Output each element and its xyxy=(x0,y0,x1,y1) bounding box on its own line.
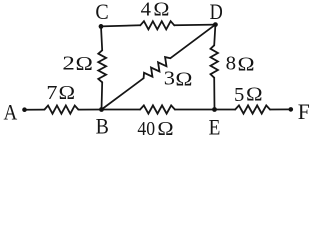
terminal dot F xyxy=(289,107,294,112)
svg-text:4: 4 xyxy=(141,0,152,21)
resistor 3 ohm (between B and D, diagonal) xyxy=(144,57,171,78)
svg-text:Ω: Ω xyxy=(175,70,192,91)
svg-text:F: F xyxy=(298,99,310,124)
wire 8-ohm resistor to node E xyxy=(213,78,215,110)
wire A to 7-ohm resistor xyxy=(25,109,45,111)
wire node B to 40-ohm resistor xyxy=(102,109,141,111)
resistor 8 ohm (between D and E) xyxy=(211,45,218,77)
svg-text:7: 7 xyxy=(46,83,57,104)
svg-text:40: 40 xyxy=(137,119,155,140)
wire 5-ohm resistor to F xyxy=(270,108,291,110)
junction dot E xyxy=(212,107,217,112)
junction dot C xyxy=(99,24,104,29)
svg-text:Ω: Ω xyxy=(59,83,76,104)
wire node C to 4-ohm resistor xyxy=(101,25,140,26)
wire 7-ohm resistor to node B xyxy=(78,109,101,111)
wire node D down to 8-ohm resistor xyxy=(214,25,215,46)
svg-text:Ω: Ω xyxy=(157,119,173,140)
resistor 5 ohm (between E and F) xyxy=(235,105,270,113)
wire 3-ohm resistor to node D (diagonal) xyxy=(170,25,215,59)
svg-text:Ω: Ω xyxy=(76,54,93,75)
resistor 4 ohm (between C and D) xyxy=(140,21,174,29)
wire node E to 5-ohm resistor xyxy=(215,109,236,111)
svg-text:C: C xyxy=(95,0,108,24)
svg-text:5: 5 xyxy=(234,85,244,106)
svg-text:3: 3 xyxy=(164,68,175,89)
wire node B up to 2-ohm resistor xyxy=(101,82,104,109)
svg-text:8: 8 xyxy=(226,53,236,74)
svg-text:Ω: Ω xyxy=(246,85,263,106)
junction dot B xyxy=(99,107,104,112)
wire 40-ohm resistor to node E xyxy=(175,109,215,111)
resistor 2 ohm (between B and C) xyxy=(98,50,106,82)
svg-text:E: E xyxy=(209,115,221,140)
svg-text:A: A xyxy=(4,100,18,125)
svg-text:2: 2 xyxy=(62,53,74,74)
resistor 40 ohm (between B and E) xyxy=(140,105,175,113)
terminal dot A xyxy=(22,107,27,112)
wire 2-ohm resistor to node C xyxy=(101,26,102,50)
svg-text:B: B xyxy=(96,113,109,138)
junction dot D xyxy=(213,22,218,27)
resistor 7 ohm (between A and B) xyxy=(44,106,78,114)
svg-text:D: D xyxy=(210,0,223,24)
svg-text:Ω: Ω xyxy=(238,54,255,75)
wire node B to 3-ohm resistor (diagonal) xyxy=(102,78,144,109)
svg-text:Ω: Ω xyxy=(153,0,169,21)
wire 4-ohm resistor to node D xyxy=(174,24,215,27)
